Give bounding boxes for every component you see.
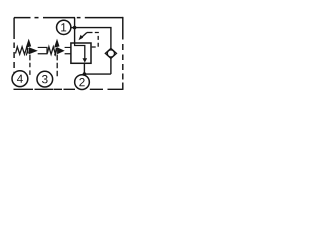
- pilot dashed line to port 4: [29, 55, 31, 75]
- background: [0, 0, 136, 106]
- port circle 3: [37, 71, 53, 87]
- wire bottom branch to node B: [84, 73, 111, 75]
- enclosure boundary top (dashed): [14, 17, 123, 19]
- adjustment arrow 1 shaft: [26, 48, 28, 56]
- check valve seat diamond: [105, 48, 116, 58]
- port circle 1: [57, 20, 71, 34]
- wire check valve down: [110, 58, 112, 74]
- digit 1: [61, 23, 66, 31]
- node B junction dot: [83, 72, 87, 76]
- pilot arrow head: [79, 35, 84, 40]
- enclosure boundary right (dashed): [122, 17, 124, 90]
- digit 3: [42, 75, 48, 83]
- enclosure boundary bottom (dashed): [14, 88, 123, 90]
- digit 2: [79, 78, 84, 86]
- spring 1: [16, 47, 29, 55]
- wire node A right and down to check valve: [75, 28, 111, 49]
- port circle 2: [75, 75, 90, 90]
- piston bore 1: [38, 47, 47, 53]
- pilot dashed line to port 3: [56, 55, 58, 77]
- node A junction dot: [73, 26, 77, 30]
- pilot arrow diagonal shaft: [80, 33, 87, 39]
- adjustment arrow 2 shaft: [55, 48, 57, 56]
- wire node A up to boundary: [74, 18, 76, 28]
- valve internal flow path: [75, 43, 85, 59]
- check valve ball: [107, 50, 114, 57]
- pilot piston 2 (black triangle): [57, 47, 65, 54]
- valve internal flow arrowhead: [83, 58, 88, 62]
- adjustment arrow 1 head: [26, 39, 31, 48]
- piston bore 2: [65, 47, 71, 53]
- main valve box U1: [71, 43, 91, 63]
- enclosure boundary left (dashed): [13, 18, 15, 78]
- pilot line solid stub: [87, 32, 93, 34]
- digit 4: [17, 75, 23, 83]
- wire valve box to node B: [83, 63, 85, 74]
- pilot dashed line around box: [91, 33, 98, 48]
- wire port1 to node A: [71, 27, 75, 29]
- wire node A down to valve box: [74, 28, 76, 43]
- port circle 4: [12, 71, 28, 87]
- pilot piston 1 (black triangle): [29, 47, 38, 54]
- adjustment arrow 2 head: [54, 39, 59, 48]
- spring 2: [47, 47, 57, 55]
